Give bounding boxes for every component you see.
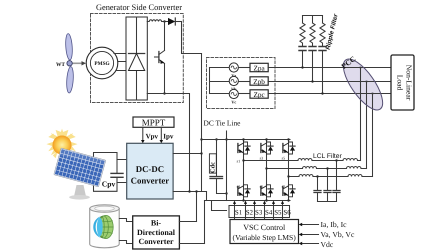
DC-DC converter box bbox=[127, 143, 173, 199]
svg-text:Vc: Vc bbox=[231, 100, 236, 105]
svg-text:Zpc: Zpc bbox=[254, 91, 265, 99]
rectifier bbox=[126, 17, 147, 100]
LCL shunt capacitor branch c bbox=[314, 177, 321, 202]
svg-text:LCL Filter: LCL Filter bbox=[313, 153, 343, 160]
svg-text:Converter: Converter bbox=[131, 175, 170, 185]
svg-text:s3: s3 bbox=[260, 155, 264, 160]
svg-text:PMSG: PMSG bbox=[94, 61, 109, 67]
non-linear load box bbox=[391, 55, 414, 110]
svg-text:Vdc: Vdc bbox=[321, 240, 334, 249]
PCC ellipse outline bbox=[336, 53, 389, 115]
svg-text:WT: WT bbox=[56, 62, 65, 68]
LCL capacitor common bar bbox=[318, 201, 337, 203]
arrow Vpv bbox=[142, 127, 144, 140]
wire DC-DC pos out bbox=[173, 153, 201, 155]
bi-directional converter box bbox=[133, 216, 180, 249]
battery bbox=[90, 205, 120, 248]
svg-text:Cdc: Cdc bbox=[210, 162, 217, 173]
svg-text:S3: S3 bbox=[255, 210, 263, 217]
LCL inductor c2 bbox=[348, 175, 362, 177]
junction nodes bbox=[188, 138, 227, 194]
DC bus positive vertical bbox=[201, 54, 203, 192]
IGBT S4 bbox=[238, 185, 250, 197]
solar panel stand bbox=[69, 185, 90, 200]
svg-text:Directional: Directional bbox=[137, 228, 176, 237]
S1-S6 gate label strip bbox=[229, 206, 291, 218]
svg-text:Load: Load bbox=[396, 75, 405, 91]
tiny switch labels bbox=[237, 155, 286, 189]
svg-text:Ipv: Ipv bbox=[163, 132, 174, 140]
wire neg out of converter bbox=[147, 94, 189, 192]
LCL inductor c1 bbox=[299, 175, 313, 177]
generator side converter dashed box bbox=[91, 14, 184, 103]
source Vc bbox=[210, 89, 239, 104]
phase output row c bbox=[289, 176, 373, 178]
solar panel bbox=[54, 148, 106, 187]
svg-text:s1: s1 bbox=[237, 159, 241, 164]
VSC top rail bbox=[202, 139, 291, 141]
source Vb bbox=[210, 76, 239, 91]
ripple filter bbox=[299, 13, 340, 94]
PCC taps down bbox=[360, 68, 362, 161]
input arrow Vdc bbox=[299, 240, 334, 249]
junction nodes on phases bbox=[301, 66, 373, 94]
svg-text:S1: S1 bbox=[235, 210, 243, 217]
phase output row b bbox=[267, 168, 367, 170]
svg-text:Converter: Converter bbox=[138, 237, 174, 246]
PCC ellipse bbox=[336, 53, 389, 115]
IGBT S6 bbox=[261, 185, 273, 197]
grid neutral wire bbox=[209, 68, 211, 94]
LCL inductor b1 bbox=[303, 167, 317, 169]
svg-text:s4: s4 bbox=[237, 184, 241, 189]
phase a line bbox=[268, 67, 391, 69]
VSC legs bbox=[244, 140, 289, 201]
IGBT S1 bbox=[238, 142, 250, 154]
impedance Zpc bbox=[238, 90, 268, 99]
svg-text:Vpv: Vpv bbox=[146, 132, 159, 140]
sun bbox=[47, 129, 78, 160]
MPPT box bbox=[133, 117, 174, 127]
battery wires to converter bbox=[119, 219, 132, 222]
bi-directional converter bus wires bbox=[179, 221, 196, 223]
wire pos out of converter bbox=[182, 22, 202, 54]
DC link wires near Cdc bbox=[196, 192, 198, 222]
arrow Ipv bbox=[160, 127, 162, 140]
VSC control box bbox=[230, 220, 299, 244]
svg-text:MPPT: MPPT bbox=[142, 117, 166, 127]
boost diode bbox=[168, 18, 182, 25]
boost inductor bbox=[147, 20, 168, 22]
impedance Zpa bbox=[238, 63, 268, 72]
LCL inductor b2 bbox=[347, 166, 362, 168]
svg-text:s6: s6 bbox=[260, 184, 264, 189]
PMSG generator bbox=[86, 47, 118, 79]
AC grid dashed box bbox=[207, 58, 276, 109]
LCL inductor a1 bbox=[298, 159, 312, 161]
IGBT S2 bbox=[283, 185, 295, 197]
svg-text:S6: S6 bbox=[283, 210, 291, 217]
IGBT S5 bbox=[283, 142, 295, 154]
gate drive lines with up arrows bbox=[233, 201, 284, 220]
input arrow Ia Ib Ic bbox=[299, 220, 347, 229]
wires PMSG to rectifier bbox=[114, 54, 126, 71]
svg-text:DC Tie Line: DC Tie Line bbox=[204, 119, 242, 128]
svg-text:Zpa: Zpa bbox=[254, 64, 266, 72]
svg-text:s2: s2 bbox=[282, 184, 286, 189]
svg-text:S2: S2 bbox=[246, 210, 254, 217]
phase b line bbox=[268, 81, 391, 83]
LCL shunt capacitor branch b bbox=[324, 169, 331, 202]
svg-text:Zpb: Zpb bbox=[253, 78, 265, 86]
svg-text:Cpv: Cpv bbox=[102, 180, 116, 189]
IGBT S3 bbox=[261, 142, 273, 154]
svg-text:S5: S5 bbox=[274, 210, 282, 217]
LCL shunt capacitor branch a bbox=[333, 161, 340, 202]
svg-text:Va, Vb, Vc: Va, Vb, Vc bbox=[321, 230, 355, 239]
phase c line bbox=[268, 93, 391, 95]
phase output row a bbox=[244, 160, 361, 162]
source Va bbox=[210, 63, 239, 78]
svg-text:Non-Linear: Non-Linear bbox=[405, 65, 414, 101]
svg-text:s5: s5 bbox=[282, 155, 286, 160]
svg-text:Bi-: Bi- bbox=[151, 219, 162, 228]
wire DC-DC neg out bbox=[173, 191, 206, 193]
svg-text:Ia, Ib, Ic: Ia, Ib, Ic bbox=[321, 220, 348, 229]
svg-text:(Variable Step LMS): (Variable Step LMS) bbox=[233, 233, 297, 242]
PV loop wiring with Cpv bbox=[94, 153, 127, 192]
VSC bottom rail bbox=[205, 200, 291, 202]
wind turbine WT bbox=[56, 33, 86, 93]
Cdc capacitor bbox=[209, 140, 226, 194]
input arrow Va Vb Vc bbox=[299, 230, 355, 239]
svg-text:S4: S4 bbox=[265, 210, 273, 217]
junction node bbox=[163, 20, 165, 22]
svg-text:DC-DC: DC-DC bbox=[136, 164, 164, 174]
LCL inductor a2 bbox=[343, 158, 358, 160]
boost IGBT bbox=[155, 22, 165, 94]
svg-text:VSC Control: VSC Control bbox=[243, 223, 286, 232]
impedance Zpb bbox=[238, 77, 268, 86]
junction node bbox=[163, 92, 165, 94]
svg-text:Generator Side Converter: Generator Side Converter bbox=[96, 3, 182, 12]
